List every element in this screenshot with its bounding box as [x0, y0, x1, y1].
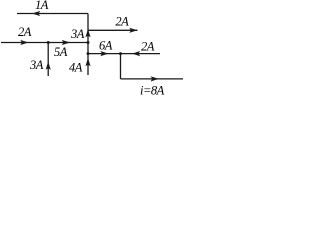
wire right (6A/2A branch) [88, 53, 160, 55]
arrow 3A up (lower stub) [46, 62, 51, 70]
svg-text:2A: 2A [115, 14, 129, 28]
arrow 1A left [32, 11, 40, 16]
arrow 2A left (into node D) [132, 51, 140, 56]
svg-text:5A: 5A [54, 45, 68, 59]
svg-text:6A: 6A [99, 39, 113, 53]
wire vertical (8A drop) [120, 54, 122, 79]
arrow i=8A right [151, 76, 159, 81]
arrow 3A up (into node B) [85, 29, 90, 37]
arrow 2A right (top right branch) [129, 28, 137, 33]
svg-text:3A: 3A [29, 58, 44, 72]
svg-text:2A: 2A [141, 40, 155, 54]
wire bottom (i=8A branch) [121, 78, 184, 80]
junction node B (5A+4A junction) [87, 41, 90, 44]
wire middle-left (2A/5A branch) [1, 42, 88, 44]
junction node C (6A branch) [87, 52, 90, 55]
wire vertical stub (3A branch) [47, 43, 49, 77]
arrow 5A right [62, 40, 70, 45]
junction node A (2A+3A=5A) [47, 41, 50, 44]
arrow 6A right [100, 51, 108, 56]
svg-text:1A: 1A [35, 0, 49, 12]
svg-text:3A: 3A [70, 27, 85, 41]
junction node D (6A+2A=8A) [119, 52, 122, 55]
wire top (1A branch) [17, 13, 88, 15]
svg-text:i=8A: i=8A [140, 84, 165, 96]
svg-text:4A: 4A [69, 61, 83, 75]
svg-text:2A: 2A [18, 25, 32, 39]
wire vertical right bus at x=88 [87, 14, 89, 76]
wire right (2A branch out) [88, 29, 138, 31]
arrow 2A right [20, 40, 28, 45]
arrow 4A up [85, 58, 90, 66]
